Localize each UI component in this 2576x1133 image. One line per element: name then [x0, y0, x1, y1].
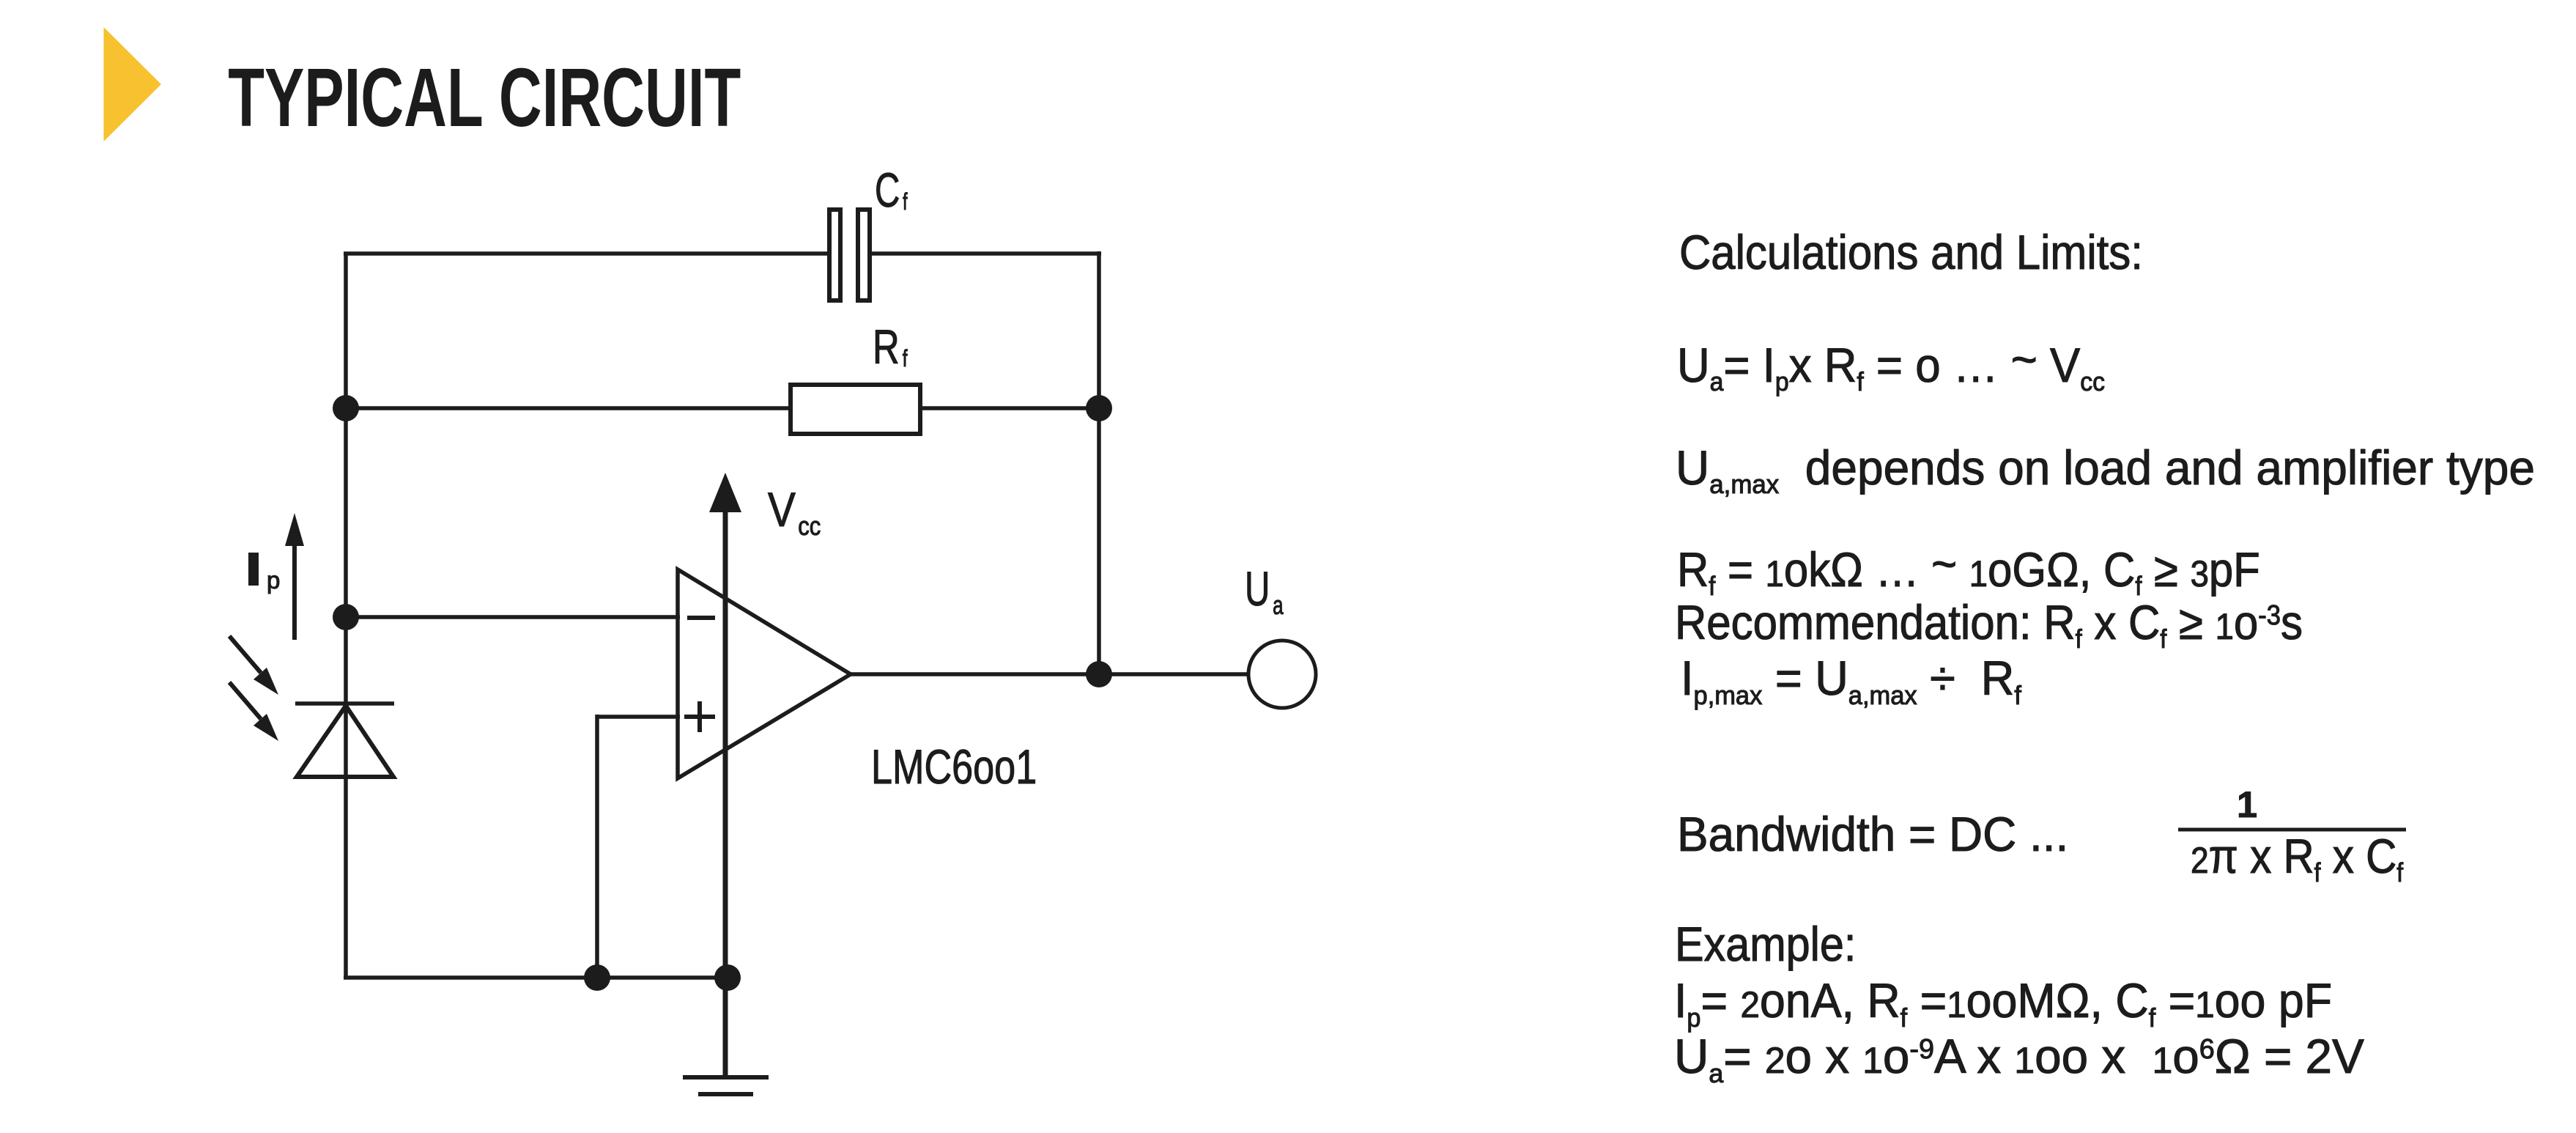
svg-text:cc: cc [798, 512, 821, 542]
text: example heading [1675, 918, 1856, 972]
svg-text:Recommendation: Rf x Cf ≥ 1o-3: Recommendation: Rf x Cf ≥ 1o-3s [1675, 596, 2303, 654]
wire: Rf row, right segment [921, 406, 1099, 410]
svg-text:Ua,max depends on load and am: Ua,max depends on load and amplifier typ… [1676, 440, 2535, 499]
svg-text:a: a [1273, 591, 1284, 620]
svg-text:TYPICAL CIRCUIT: TYPICAL CIRCUIT [228, 51, 741, 144]
formula: bandwidth fraction denominator [2191, 830, 2404, 888]
text: example result line [1674, 1029, 2364, 1088]
formula: bandwidth fraction bar [2178, 828, 2406, 832]
node: left bus / inverting input junction [333, 604, 359, 630]
svg-text:2π x Rf x Cf: 2π x Rf x Cf [2191, 830, 2404, 888]
text: Ua,max note [1676, 440, 2535, 499]
svg-text:f: f [903, 346, 908, 372]
svg-text:U: U [1245, 562, 1270, 616]
text: Rf range line [1677, 537, 2260, 601]
svg-text:Ip= 2onA, Rf =1ooMΩ, Cf =1oo p: Ip= 2onA, Rf =1ooMΩ, Cf =1oo pF [1674, 974, 2332, 1033]
svg-text:f: f [903, 188, 908, 215]
wire: Rf row, left segment [346, 406, 790, 410]
svg-text:Bandwidth = DC ...: Bandwidth = DC ... [1677, 807, 2068, 861]
label R_f [873, 321, 908, 374]
text: Ip,max line [1681, 652, 2021, 710]
node: output junction [1086, 661, 1112, 687]
label I_p [248, 553, 280, 594]
text: recommendation line [1675, 596, 2303, 654]
svg-text:Ua= 2o x 1o-9A x 1oo x 1o6Ω =: Ua= 2o x 1o-9A x 1oo x 1o6Ω = 2V [1674, 1029, 2364, 1088]
wire: inverting input [346, 615, 680, 619]
text: example values line [1674, 974, 2332, 1033]
svg-text:p: p [267, 566, 280, 594]
label U_a [1245, 562, 1284, 620]
node: left bus / Rf row junction [333, 395, 359, 421]
wire: bottom ground bus [344, 975, 728, 980]
photodiode D1 triangle [297, 706, 393, 777]
svg-text:Rf = 1okΩ … ~ 1oGΩ, Cf ≥ 3pF: Rf = 1okΩ … ~ 1oGΩ, Cf ≥ 3pF [1677, 537, 2260, 601]
wire: Vcc / ground vertical through op-amp [723, 511, 728, 1077]
op-amp non-inverting input marker (plus) [684, 701, 715, 732]
label LMC6001 [871, 739, 1037, 794]
resistor R_f [791, 385, 920, 434]
node: ground bus / ground stem junction [714, 964, 741, 991]
label C_f [875, 163, 908, 217]
text: formula Ua = Ip x Rf [1677, 332, 2105, 396]
photodiode D1 cathode bar [295, 701, 394, 706]
op-amp U1 triangle [678, 569, 851, 778]
text: calculations heading [1679, 226, 2143, 279]
label V_cc [768, 483, 821, 542]
wire: op-amp output [851, 672, 1248, 676]
Vcc supply arrow head [709, 473, 741, 512]
photocurrent arrow I_p [285, 513, 304, 640]
svg-text:Calculations and Limits:: Calculations and Limits: [1679, 226, 2143, 279]
wire: non-inverting input vertical [595, 715, 599, 978]
section marker triangle (yellow) [104, 27, 162, 141]
node: right feedback / Rf row junction [1086, 395, 1112, 421]
wire: right feedback vertical [1097, 251, 1101, 674]
wire: left vertical bus [344, 254, 348, 978]
svg-text:LMC6oo1: LMC6oo1 [871, 739, 1037, 794]
svg-text:C: C [875, 163, 900, 217]
svg-text:Ip,max = Ua,max ÷ Rf: Ip,max = Ua,max ÷ Rf [1681, 652, 2021, 710]
op-amp inverting input marker (minus) [687, 616, 715, 620]
light arrow 2 [229, 682, 278, 741]
capacitor C_f [829, 210, 870, 300]
svg-text:R: R [873, 321, 900, 374]
node: non-inverting / ground bus junction [584, 964, 610, 991]
wire: non-inverting input horizontal [597, 715, 680, 719]
formula: bandwidth fraction numerator [2237, 784, 2257, 825]
text: bandwidth line [1677, 807, 2068, 861]
svg-text:Example:: Example: [1675, 918, 1856, 972]
wire: top feedback, left segment [344, 251, 829, 256]
title: TYPICAL CIRCUIT [228, 51, 741, 144]
svg-text:1: 1 [2237, 784, 2257, 825]
svg-text:Ua= Ipx Rf = o … ~ Vcc: Ua= Ipx Rf = o … ~ Vcc [1677, 332, 2105, 396]
light arrow 1 [229, 636, 278, 695]
svg-text:V: V [768, 483, 796, 537]
ground symbol [683, 1077, 769, 1094]
wire: top feedback, right segment [870, 251, 1101, 256]
output terminal circle U_a [1248, 641, 1316, 708]
